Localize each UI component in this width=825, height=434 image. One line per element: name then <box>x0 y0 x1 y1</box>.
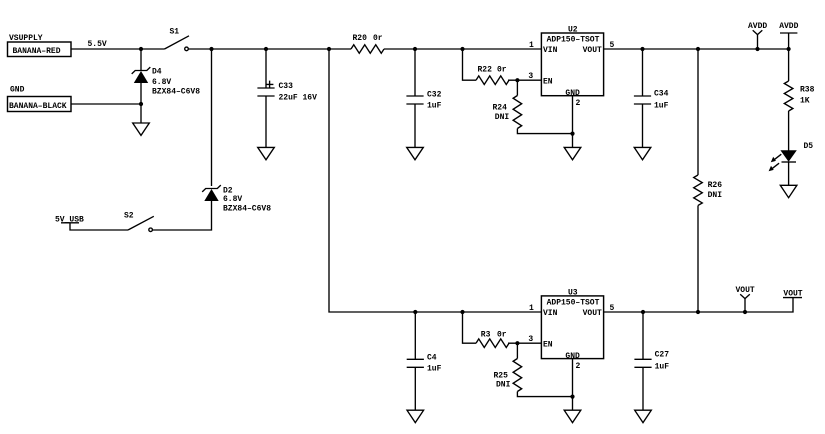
label C33 <box>279 82 318 103</box>
svg-text:BZX84–C6V8: BZX84–C6V8 <box>152 88 200 97</box>
wire R22 to U2 EN pin 3 <box>508 79 541 81</box>
ground symbol below U3 <box>564 410 581 422</box>
label C34 <box>654 89 669 110</box>
junction node R26 bottom <box>696 310 700 314</box>
svg-text:VSUPPLY: VSUPPLY <box>9 34 43 43</box>
resistor R20 0r <box>351 34 384 53</box>
ground symbol below C34 <box>634 147 651 159</box>
svg-text:R20: R20 <box>353 34 368 43</box>
wire C4 to ground <box>414 367 416 410</box>
capacitor C34 1uF <box>634 96 651 104</box>
power port VOUT (arrow style) <box>736 286 755 312</box>
wire rail down to R3 <box>463 312 477 343</box>
wire R26 to VOUT rail <box>697 206 699 313</box>
zener diode D4 <box>132 67 201 96</box>
junction node C32 <box>413 47 417 51</box>
capacitor C4 1uF <box>407 359 424 367</box>
ground symbol below U2 <box>564 147 581 159</box>
wire U3 GND pin 2 <box>572 359 574 411</box>
svg-text:VIN: VIN <box>543 46 558 55</box>
wire rail to D4 cathode <box>140 49 142 71</box>
svg-text:1uF: 1uF <box>427 365 442 374</box>
port GND (BANANA-BLACK) <box>8 86 72 112</box>
resistor R26 DNI <box>694 175 703 205</box>
svg-text:C32: C32 <box>427 90 442 99</box>
wire C27 to ground <box>642 367 644 410</box>
svg-text:6.8V: 6.8V <box>152 78 171 87</box>
wire D5 to ground <box>788 162 790 185</box>
label R25 DNI <box>494 372 511 390</box>
pin 3 label U3 <box>528 335 533 344</box>
junction node R3 branch <box>460 310 464 314</box>
wire D4 anode to GND node <box>140 83 142 104</box>
wire EN node to R25 <box>516 343 518 358</box>
port VSUPPLY (BANANA-RED) <box>8 34 72 57</box>
pin 2 label U2 <box>576 99 581 108</box>
plus sign C33 polarity <box>266 81 273 88</box>
wire R20 to U2 VIN pin 1 <box>384 48 541 50</box>
svg-text:3: 3 <box>528 72 533 81</box>
wire EN node to R24 <box>516 80 518 95</box>
svg-text:S1: S1 <box>170 28 180 37</box>
wire D2 anode to S2 <box>152 201 211 230</box>
svg-text:R22: R22 <box>478 65 493 74</box>
wire C33 to ground <box>265 96 267 147</box>
svg-text:U2: U2 <box>568 25 578 34</box>
junction node GND banana <box>139 102 143 106</box>
junction node D2 branch <box>209 47 213 51</box>
svg-text:BANANA–RED: BANANA–RED <box>13 47 61 56</box>
svg-text:C27: C27 <box>655 351 670 360</box>
switch S2 <box>124 212 154 232</box>
switch S1 <box>165 28 190 51</box>
svg-text:R24: R24 <box>493 103 508 112</box>
label C32 <box>427 90 442 110</box>
junction node AVDD bar <box>787 47 791 51</box>
svg-text:22uF 16V: 22uF 16V <box>279 94 318 103</box>
label R26 DNI <box>708 181 723 200</box>
svg-text:ADP150–TSOT: ADP150–TSOT <box>547 36 600 45</box>
svg-text:1uF: 1uF <box>427 102 442 111</box>
svg-text:R38: R38 <box>800 86 815 95</box>
wire BANANA-BLACK to node <box>71 103 141 105</box>
wire AVDD rail down to R26 <box>697 49 699 175</box>
wire rail to C33 <box>265 49 267 88</box>
svg-text:U3: U3 <box>568 288 578 297</box>
svg-text:C33: C33 <box>279 82 294 91</box>
junction node EN/R24 <box>515 78 519 82</box>
wire R25 to GND node <box>517 392 572 397</box>
resistor R24 DNI <box>513 96 522 129</box>
wire S2 to 5V_USB stub <box>70 223 128 231</box>
wire U3 VOUT pin 5 to VOUT port <box>604 298 793 312</box>
svg-text:1: 1 <box>529 304 534 313</box>
LED D5 <box>769 142 814 171</box>
ground symbol below C27 <box>635 410 652 422</box>
label R38 1K <box>800 86 815 106</box>
svg-text:6.8V: 6.8V <box>223 195 242 204</box>
capacitor C32 1uF <box>406 96 423 104</box>
svg-text:R26: R26 <box>708 181 723 190</box>
wire rail down to R22 <box>463 49 477 80</box>
power port AVDD (bar style) <box>779 22 798 49</box>
svg-text:D5: D5 <box>804 142 814 151</box>
wire rail to C34 <box>642 49 644 96</box>
junction node D4/rail <box>139 47 143 51</box>
wire R24 to GND node <box>517 129 572 134</box>
junction node C27 <box>641 310 645 314</box>
pin 3 label U2 <box>528 72 533 81</box>
junction node U2 GND <box>570 132 574 136</box>
svg-text:0r: 0r <box>373 34 383 43</box>
net label 5V_USB <box>55 215 84 224</box>
svg-text:1uF: 1uF <box>654 102 669 111</box>
wire rail down to U3 input rail <box>329 49 541 312</box>
svg-text:R25: R25 <box>494 372 509 381</box>
junction node C4 <box>413 310 417 314</box>
ground symbol below C4 <box>407 410 424 422</box>
wire AVDD to R38 <box>788 49 790 81</box>
capacitor C33 22uF 16V <box>257 88 274 96</box>
junction node U3 GND <box>570 395 574 399</box>
svg-text:1: 1 <box>529 41 534 50</box>
svg-text:3: 3 <box>528 335 533 344</box>
ground symbol below C32 <box>407 147 424 159</box>
op-amp U3 ADP150-TSOT (regulator) <box>541 288 603 361</box>
label R24 DNI <box>493 103 510 122</box>
svg-text:VIN: VIN <box>543 309 558 318</box>
svg-text:AVDD: AVDD <box>748 22 767 31</box>
svg-text:2: 2 <box>576 99 581 108</box>
svg-text:S2: S2 <box>124 212 134 221</box>
svg-text:1uF: 1uF <box>655 362 670 371</box>
op-amp U2 ADP150-TSOT (regulator) <box>541 25 603 98</box>
wire U2 VOUT pin 5 to AVDD <box>604 48 789 50</box>
wire C34 to ground <box>642 104 644 147</box>
svg-text:GND: GND <box>10 86 25 95</box>
wire rail to C27 <box>642 312 644 359</box>
pin 1 label U3 <box>529 304 534 313</box>
svg-text:DNI: DNI <box>495 113 510 122</box>
pin 5 label U2 <box>610 41 615 50</box>
junction node VOUT arrow <box>743 310 747 314</box>
net label VOUT (underlined) <box>783 289 803 298</box>
svg-text:DNI: DNI <box>496 381 511 390</box>
junction node C34 <box>640 47 644 51</box>
pin 2 label U3 <box>576 362 581 371</box>
svg-text:AVDD: AVDD <box>779 22 798 31</box>
wire node to ground <box>140 104 142 123</box>
resistor R3 0r <box>476 331 509 348</box>
wire BANANA-RED to S1 <box>71 48 165 50</box>
svg-text:1K: 1K <box>800 97 810 106</box>
wire R3 to U3 EN pin 3 <box>508 342 541 344</box>
ground symbol below D5 <box>780 185 797 197</box>
junction node C33 <box>264 47 268 51</box>
capacitor C27 1uF <box>634 359 651 367</box>
svg-text:VOUT: VOUT <box>736 286 755 295</box>
svg-text:DNI: DNI <box>708 191 723 200</box>
power port AVDD (arrow style) <box>748 22 767 49</box>
wire C32 to ground <box>414 104 416 147</box>
resistor R25 DNI <box>513 359 522 392</box>
label C4 <box>427 353 442 373</box>
ground symbol below D4 <box>133 123 150 135</box>
svg-text:0r: 0r <box>497 65 507 74</box>
svg-text:ADP150–TSOT: ADP150–TSOT <box>547 299 600 308</box>
resistor R38 1K <box>784 81 793 111</box>
wire U2 GND pin 2 <box>572 96 574 148</box>
svg-text:VOUT: VOUT <box>583 46 602 55</box>
junction node to U3 feed <box>327 47 331 51</box>
svg-text:R3: R3 <box>481 331 491 340</box>
svg-text:2: 2 <box>576 362 581 371</box>
wire R38 to D5 <box>788 111 790 151</box>
svg-text:EN: EN <box>543 77 553 86</box>
wire S1 to R20 <box>188 48 351 50</box>
ground symbol below C33 <box>258 147 275 159</box>
zener diode D2 <box>202 185 271 213</box>
pin 1 label U2 <box>529 41 534 50</box>
svg-text:5.5V: 5.5V <box>88 40 107 49</box>
junction node R26 top <box>696 47 700 51</box>
svg-text:EN: EN <box>543 340 553 349</box>
wire rail down to D2 <box>211 49 213 186</box>
junction node AVDD arrow <box>755 47 759 51</box>
junction node R22 branch <box>460 47 464 51</box>
svg-text:0r: 0r <box>497 331 507 340</box>
wire rail to C32 <box>414 49 416 96</box>
wire rail to C4 <box>414 312 416 359</box>
svg-text:D4: D4 <box>152 68 162 77</box>
label C27 <box>655 351 670 372</box>
svg-text:C4: C4 <box>427 353 437 362</box>
pin 5 label U3 <box>610 304 615 313</box>
svg-text:C34: C34 <box>654 89 669 98</box>
svg-text:BZX84–C6V8: BZX84–C6V8 <box>223 205 271 214</box>
svg-text:VOUT: VOUT <box>583 309 602 318</box>
junction node EN/R25 <box>515 341 519 345</box>
svg-text:BANANA–BLACK: BANANA–BLACK <box>9 102 67 111</box>
resistor R22 0r <box>476 65 509 84</box>
